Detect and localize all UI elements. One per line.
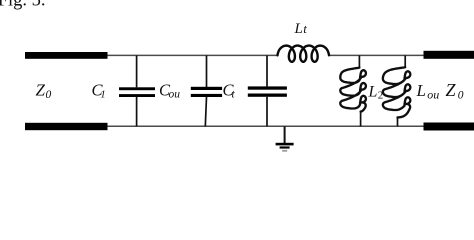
svg-text:ou: ou <box>427 88 439 102</box>
svg-text:L: L <box>368 84 378 101</box>
svg-text:L: L <box>416 81 426 100</box>
svg-text:Z: Z <box>446 80 457 100</box>
svg-text:1: 1 <box>100 89 106 101</box>
svg-text:ou: ou <box>169 89 181 101</box>
svg-text:L: L <box>294 21 303 37</box>
svg-text:0: 0 <box>46 89 52 101</box>
svg-text:t: t <box>232 89 236 101</box>
svg-text:0: 0 <box>458 90 464 102</box>
svg-text:Z: Z <box>36 81 46 100</box>
svg-text:t: t <box>303 21 307 36</box>
svg-text:2: 2 <box>378 90 384 102</box>
svg-text:Fig. 5.: Fig. 5. <box>0 0 46 11</box>
